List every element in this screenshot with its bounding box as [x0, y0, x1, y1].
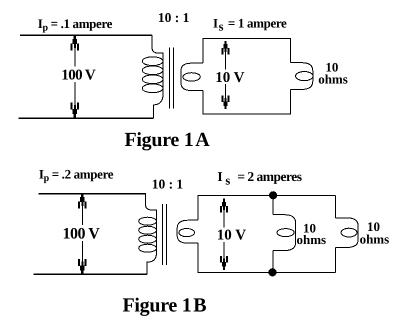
svg-text:Figure 1B: Figure 1B: [123, 295, 207, 317]
transformer T2 core (Fig 1B): [162, 204, 166, 265]
svg-text:ohms: ohms: [318, 72, 348, 87]
transformer T2 primary winding (Fig 1B): [139, 193, 157, 274]
svg-text:100 V: 100 V: [61, 67, 96, 83]
label: 100 V (Fig 1B): [61, 225, 102, 243]
svg-text:10 V: 10 V: [217, 228, 246, 244]
svg-text:10 : 1: 10 : 1: [152, 176, 184, 191]
arrow: 10 V measurement (Fig 1B): [220, 199, 228, 270]
label: 100 V (Fig 1A): [60, 67, 97, 84]
resistor R3 10 ohms branch (Fig 1B): [336, 195, 359, 272]
svg-text:10 : 1: 10 : 1: [158, 10, 190, 25]
wire: primary bottom (Fig 1A): [19, 117, 154, 119]
junction node bottom (Fig 1B): [268, 268, 276, 276]
svg-text:100 V: 100 V: [63, 226, 101, 243]
transformer T1 core (Fig 1A): [169, 48, 173, 109]
transformer T1 primary winding (Fig 1A): [142, 35, 163, 118]
resistor R2 10 ohms branch (Fig 1B): [273, 195, 296, 272]
transformer T2 secondary winding (Fig 1B): [177, 220, 198, 243]
resistor R1 10 ohms (Fig 1A): [291, 63, 313, 90]
wire: primary top (Fig 1A): [20, 34, 152, 36]
junction node top (Fig 1B): [269, 191, 277, 199]
arrow: 100 V measurement (Fig 1B): [78, 194, 87, 275]
arrow: 10 V measurement (Fig 1A): [222, 41, 230, 109]
svg-text:ohms: ohms: [360, 231, 390, 246]
label: 10 V (Fig 1A): [214, 70, 247, 87]
svg-text:Figure 1A: Figure 1A: [125, 129, 211, 151]
svg-text:Ip = .2 ampere: Ip = .2 ampere: [39, 166, 114, 184]
transformer T1 secondary winding (Fig 1A): [181, 63, 203, 90]
svg-text:ohms: ohms: [296, 232, 326, 247]
label: 10 V (Fig 1B): [215, 228, 246, 244]
svg-text:Ip = .1 ampere: Ip = .1 ampere: [38, 16, 113, 34]
svg-text:10 V: 10 V: [215, 70, 244, 86]
wire: secondary loop box (Fig 1B): [198, 195, 336, 272]
wire: primary bottom (Fig 1B): [33, 273, 147, 275]
wire: secondary loop box (Fig 1A): [203, 39, 291, 115]
wire: primary top (Fig 1B): [39, 193, 146, 195]
arrow: 100 V measurement (Fig 1A): [71, 35, 80, 117]
